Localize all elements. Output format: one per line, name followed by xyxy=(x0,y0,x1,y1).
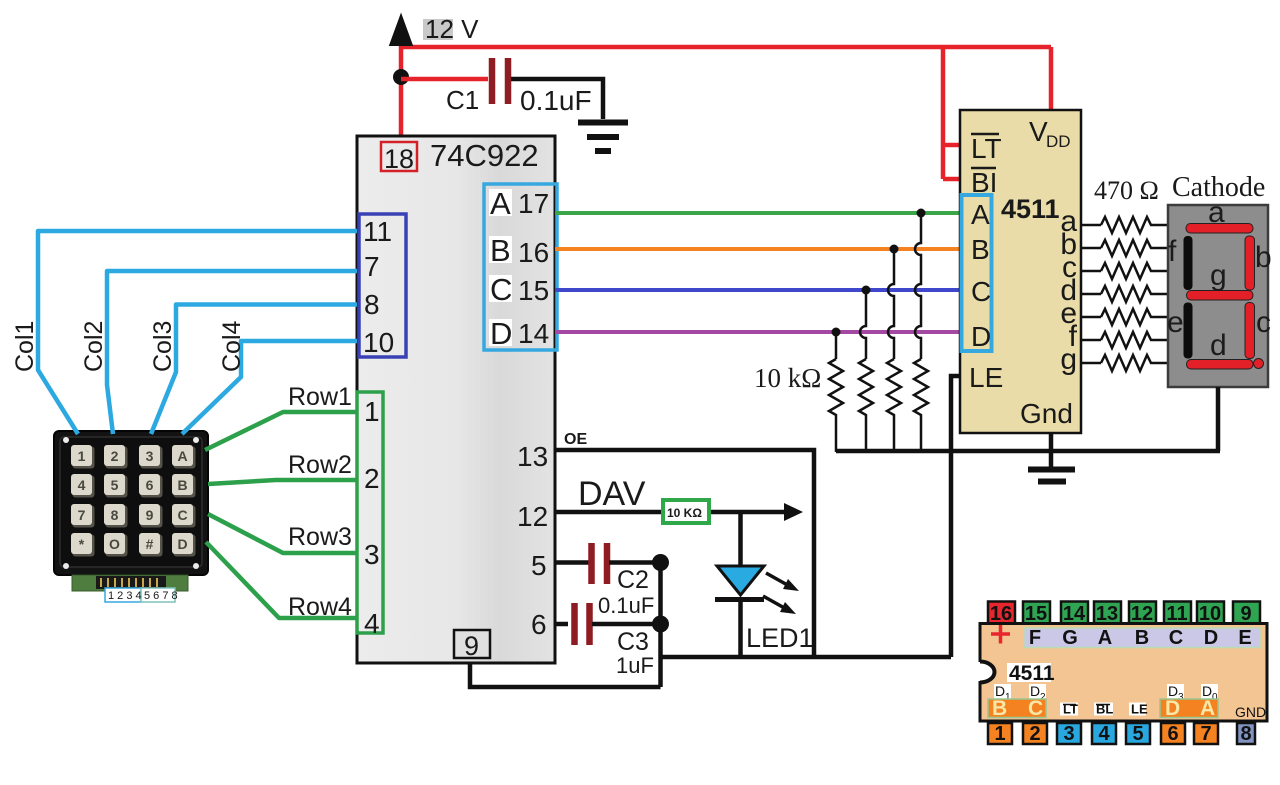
svg-text:Col3: Col3 xyxy=(149,321,177,372)
svg-text:10 kΩ: 10 kΩ xyxy=(754,363,821,393)
svg-text:OE: OE xyxy=(564,431,587,448)
svg-text:D: D xyxy=(490,316,512,351)
svg-text:Row4: Row4 xyxy=(288,593,352,621)
pinout: bottom pin 4 xyxy=(1092,723,1116,744)
svg-text:9: 9 xyxy=(464,631,479,661)
svg-text:9: 9 xyxy=(1240,603,1251,625)
svg-text:10: 10 xyxy=(1199,603,1221,625)
node on C line xyxy=(862,286,871,295)
wire C3 to junction xyxy=(592,622,661,627)
svg-text:C: C xyxy=(177,507,187,523)
svg-text:5: 5 xyxy=(111,477,119,493)
wire DAV pin12 xyxy=(555,510,786,515)
pinout: top pin 12 xyxy=(1129,602,1156,624)
keypad screw holes xyxy=(63,437,199,569)
svg-text:D: D xyxy=(971,321,991,352)
svg-text:D: D xyxy=(1165,697,1180,720)
svg-text:f: f xyxy=(1168,235,1177,268)
keypad pcb tab xyxy=(72,575,188,591)
svg-text:Row1: Row1 xyxy=(288,383,352,411)
svg-text:B: B xyxy=(177,477,187,493)
svg-text:3: 3 xyxy=(364,539,380,570)
wire D data (purple) pin14 to 4511 D xyxy=(555,330,960,334)
wire C1 to ground (black) xyxy=(511,79,603,119)
LED1 cathode bar xyxy=(715,597,764,602)
wire B data (orange) pin16 to 4511 B xyxy=(555,247,960,251)
pinout: D2 label xyxy=(1029,684,1046,699)
IC U2 4511 body xyxy=(960,110,1081,433)
svg-text:4511: 4511 xyxy=(1001,194,1060,224)
node C3 junction xyxy=(652,616,669,633)
svg-text:#: # xyxy=(146,536,154,552)
wire pulldown drop from C xyxy=(860,290,866,359)
column pins group box (blue) xyxy=(359,214,406,357)
svg-text:a: a xyxy=(1208,196,1225,229)
resistor 470 e xyxy=(1101,309,1167,325)
svg-text:*: * xyxy=(79,536,85,552)
pinout: top pin 13 xyxy=(1094,602,1121,624)
pin D 14 xyxy=(489,319,512,346)
svg-text:d: d xyxy=(1210,329,1227,362)
svg-text:Row2: Row2 xyxy=(288,451,352,479)
pin 9 box xyxy=(454,630,490,658)
svg-text:74C922: 74C922 xyxy=(430,138,539,173)
wire c to resistor xyxy=(1081,270,1101,273)
pin A 17 xyxy=(489,189,512,216)
segment b (red) xyxy=(1245,236,1255,290)
segment letter labels xyxy=(1167,196,1272,362)
pin 18 box (red) xyxy=(381,142,417,171)
svg-text:B: B xyxy=(490,233,511,268)
LED1 emission arrows xyxy=(766,573,791,587)
LED1 diode triangle xyxy=(717,566,764,595)
wire Col3 (blue) keypad to pin 8 xyxy=(151,305,357,435)
pinout: BL box xyxy=(1094,703,1113,716)
wire Row2 (green) keypad to pin 2 xyxy=(208,480,357,484)
svg-text:c: c xyxy=(1256,306,1271,339)
wire C2 to junction xyxy=(609,560,661,565)
wire dot to C1 (red) xyxy=(401,77,488,82)
svg-text:e: e xyxy=(1167,306,1184,339)
wire Col1 (blue) keypad to pin 11 xyxy=(38,231,357,434)
svg-text:GND: GND xyxy=(1235,704,1266,720)
pinout: LE box xyxy=(1129,703,1146,716)
pinout: 4511 DIP body with notch xyxy=(980,624,1267,722)
svg-text:C: C xyxy=(1169,627,1183,649)
pinout: top pin numbers xyxy=(990,603,1252,625)
svg-text:Gnd: Gnd xyxy=(1020,398,1073,429)
power supply arrow 12V xyxy=(390,14,413,46)
wire a to resistor xyxy=(1081,224,1101,227)
svg-text:B: B xyxy=(1135,627,1149,649)
pinout: bottom pin 8 xyxy=(1237,723,1255,744)
svg-text:6: 6 xyxy=(531,609,547,640)
svg-text:2: 2 xyxy=(111,448,119,464)
svg-text:14: 14 xyxy=(1063,603,1086,625)
segment e (black) xyxy=(1184,303,1193,359)
svg-text:A: A xyxy=(1098,627,1112,649)
svg-text:0.1uF: 0.1uF xyxy=(598,593,654,618)
svg-text:11: 11 xyxy=(1166,603,1187,625)
svg-text:8: 8 xyxy=(111,507,119,523)
svg-text:A: A xyxy=(177,448,187,464)
pin C 15 xyxy=(489,275,512,302)
pinout: bottom pin 1 xyxy=(988,723,1012,744)
svg-text:B: B xyxy=(992,697,1007,720)
pinout: top pin 11 xyxy=(1164,602,1191,624)
svg-text:11: 11 xyxy=(363,216,392,247)
wire A data (green) pin17 to 4511 A xyxy=(555,211,960,215)
pinout: bottom pin 3 xyxy=(1057,723,1081,744)
svg-text:4: 4 xyxy=(364,608,380,639)
ground rail under resistors xyxy=(836,449,1220,454)
pinout: LT box xyxy=(1060,703,1078,716)
pinout: B C input box xyxy=(988,699,1046,718)
svg-text:12: 12 xyxy=(517,501,548,532)
node on A line xyxy=(917,209,926,218)
wire bottom net to LE xyxy=(661,655,952,660)
ground symbol below 4511 xyxy=(1028,467,1075,473)
data in group box (cyan) xyxy=(962,195,992,351)
wire pulldown drop from B xyxy=(888,249,894,359)
wire Col2 (blue) keypad to pin 7 xyxy=(107,271,357,434)
svg-text:g: g xyxy=(1060,343,1077,376)
pinout: bottom pin 7 xyxy=(1194,723,1218,744)
segment g (red) xyxy=(1187,291,1254,301)
wire pin6 to C3 xyxy=(555,622,568,627)
svg-text:g: g xyxy=(1210,259,1227,292)
pinout: segment letter bar xyxy=(1024,628,1260,648)
resistor 10K box on DAV xyxy=(663,500,709,523)
wire pin5 to C2 xyxy=(555,560,590,565)
svg-text:LT: LT xyxy=(971,133,1002,164)
svg-text:7: 7 xyxy=(364,251,380,282)
svg-text:G: G xyxy=(1062,627,1078,649)
node junction on 12V rail xyxy=(393,69,409,85)
pinout: bottom pin numbers xyxy=(994,723,1251,745)
svg-text:470 Ω: 470 Ω xyxy=(1094,176,1159,205)
svg-text:12 V: 12 V xyxy=(425,14,479,44)
svg-text:4: 4 xyxy=(1098,723,1110,745)
svg-text:9: 9 xyxy=(146,507,154,523)
wire display cathode to ground rail xyxy=(1216,387,1221,451)
pinout: D A input box xyxy=(1160,699,1218,718)
svg-text:C: C xyxy=(490,272,512,307)
pinout: bottom pin 5 xyxy=(1126,723,1150,744)
svg-text:b: b xyxy=(1255,241,1272,274)
segment f (black) xyxy=(1184,236,1193,290)
svg-text:C3: C3 xyxy=(617,628,649,656)
resistor 470 c xyxy=(1101,263,1167,279)
svg-text:15: 15 xyxy=(1025,603,1047,625)
svg-text:Col4: Col4 xyxy=(218,320,246,372)
svg-text:C: C xyxy=(971,276,991,307)
segment a (red) xyxy=(1186,224,1253,234)
svg-text:7: 7 xyxy=(1200,723,1211,745)
pinout: D3 label xyxy=(1167,684,1184,699)
keypad module body xyxy=(54,431,208,575)
svg-text:B: B xyxy=(971,234,990,265)
segment d (red) xyxy=(1187,360,1254,370)
wire to LED1 anode xyxy=(738,512,743,566)
pinout: top pin 16 xyxy=(988,602,1015,624)
data out group box (cyan) xyxy=(484,184,557,350)
pinout: top pin 15 xyxy=(1023,602,1050,624)
svg-text:3: 3 xyxy=(146,448,154,464)
svg-text:6: 6 xyxy=(146,477,154,493)
svg-text:1: 1 xyxy=(78,448,86,464)
resistor 470 a xyxy=(1101,217,1167,233)
svg-text:DAV: DAV xyxy=(578,475,646,513)
capacitor C3 xyxy=(575,603,590,645)
wire +12V rail (red) xyxy=(401,45,1051,179)
capacitor C2 xyxy=(592,543,608,584)
pinout: bottom pin 2 xyxy=(1023,723,1047,744)
svg-text:5: 5 xyxy=(1132,723,1143,745)
svg-text:LE: LE xyxy=(969,362,1003,393)
wire pin9 to junction xyxy=(470,663,661,687)
pins a-g labels xyxy=(1060,205,1077,376)
resistor 10k on B xyxy=(887,359,901,452)
pinout: D1 label xyxy=(994,684,1011,699)
resistor 470 b xyxy=(1101,240,1167,256)
svg-text:1 2 3 4: 1 2 3 4 xyxy=(108,590,142,602)
svg-text:12: 12 xyxy=(1131,603,1153,625)
resistor 470 d xyxy=(1101,286,1167,302)
resistor 470 g xyxy=(1101,355,1167,371)
pinout: bottom pin 6 xyxy=(1161,723,1185,744)
pinout: top pin 14 xyxy=(1061,602,1088,624)
svg-text:8: 8 xyxy=(364,289,380,320)
svg-text:1: 1 xyxy=(364,396,380,427)
svg-text:16: 16 xyxy=(518,237,549,268)
pin B 16 xyxy=(489,236,512,263)
svg-text:C1: C1 xyxy=(446,85,479,115)
svg-text:15: 15 xyxy=(518,275,549,306)
row pins group box (green) xyxy=(357,392,383,633)
svg-text:5: 5 xyxy=(531,550,547,581)
svg-text:0.1uF: 0.1uF xyxy=(520,85,592,116)
wire Row1 (green) keypad to pin 1 xyxy=(205,412,357,450)
wire pulldown drop from A xyxy=(915,213,921,359)
wire g to resistor xyxy=(1081,362,1101,365)
wire d to resistor xyxy=(1081,293,1101,296)
pinout: D0 label xyxy=(1201,684,1218,699)
svg-text:D: D xyxy=(177,536,187,552)
svg-text:8: 8 xyxy=(1240,723,1251,745)
svg-text:F: F xyxy=(1029,627,1041,649)
svg-text:LE: LE xyxy=(1131,702,1148,717)
pinout: top pin 9 xyxy=(1233,602,1260,624)
svg-text:3: 3 xyxy=(1063,723,1074,745)
IC U1 74C922 body xyxy=(357,136,555,663)
node on D line xyxy=(832,328,841,337)
label 12 V xyxy=(423,19,453,40)
pinout: plus mark xyxy=(991,625,1010,644)
pinout: top pin 10 xyxy=(1197,602,1224,624)
wire 4511 Gnd to ground xyxy=(1049,433,1054,467)
svg-text:Row3: Row3 xyxy=(288,523,352,551)
wire Col4 (blue) keypad to pin 10 xyxy=(182,341,357,434)
wire f to resistor xyxy=(1081,339,1101,342)
svg-text:13: 13 xyxy=(1096,603,1118,625)
svg-text:LED1: LED1 xyxy=(746,623,814,653)
svg-text:17: 17 xyxy=(518,188,549,219)
segment c (red) xyxy=(1245,303,1255,359)
svg-text:2: 2 xyxy=(364,463,380,494)
wire e to resistor xyxy=(1081,316,1101,319)
svg-text:A: A xyxy=(971,199,990,230)
wire OE loop pin13 xyxy=(555,450,814,657)
capacitor C1 xyxy=(492,58,508,104)
resistor 10k on D xyxy=(829,359,843,452)
svg-text:5 6 7 8: 5 6 7 8 xyxy=(144,590,178,602)
svg-text:16: 16 xyxy=(990,603,1012,625)
svg-text:10: 10 xyxy=(363,327,394,358)
svg-text:2: 2 xyxy=(1029,723,1040,745)
svg-text:1: 1 xyxy=(994,723,1005,745)
svg-text:1uF: 1uF xyxy=(616,653,654,678)
svg-text:C: C xyxy=(1028,697,1043,720)
svg-text:4: 4 xyxy=(78,477,86,493)
node on B line xyxy=(890,245,899,254)
resistor 10k on A xyxy=(914,359,928,452)
svg-text:Col1: Col1 xyxy=(11,321,39,372)
svg-text:10 KΩ: 10 KΩ xyxy=(667,506,702,520)
wire b to resistor xyxy=(1081,247,1101,250)
wire LE drop xyxy=(951,376,960,657)
node C2 junction xyxy=(652,554,669,571)
wire junction vertical xyxy=(658,563,663,688)
DAV arrowhead xyxy=(784,503,803,521)
wire Row3 (green) keypad to pin 3 xyxy=(208,514,357,553)
decimal point (red) xyxy=(1254,359,1264,369)
svg-text:6: 6 xyxy=(1167,723,1178,745)
svg-text:14: 14 xyxy=(518,318,549,349)
wire LED1 cathode down xyxy=(738,600,743,657)
svg-text:D: D xyxy=(1204,627,1218,649)
wire pulldown drop from D xyxy=(835,332,838,359)
svg-text:A: A xyxy=(1200,697,1215,720)
svg-text:18: 18 xyxy=(384,144,414,174)
keypad keys xyxy=(71,445,196,557)
keypad pin labels 1-8 xyxy=(105,588,178,602)
svg-text:E: E xyxy=(1238,627,1251,649)
keypad connector xyxy=(96,576,166,589)
wire Row4 (green) keypad to pin 4 xyxy=(206,542,357,618)
ground symbol near C1 xyxy=(578,120,628,126)
resistor 470 f xyxy=(1101,332,1167,348)
7-segment display body xyxy=(1168,205,1268,387)
svg-text:C2: C2 xyxy=(617,566,649,594)
svg-text:7: 7 xyxy=(78,507,86,523)
svg-text:13: 13 xyxy=(517,441,548,472)
wire C data (indigo) pin15 to 4511 C xyxy=(555,288,960,292)
svg-text:A: A xyxy=(490,186,511,221)
pinout: label 4511 xyxy=(1007,663,1051,682)
svg-text:Col2: Col2 xyxy=(80,321,108,372)
resistor 10k on C xyxy=(859,359,873,452)
svg-text:DD: DD xyxy=(1046,132,1071,151)
svg-text:O: O xyxy=(109,536,120,552)
svg-text:4511: 4511 xyxy=(1009,662,1055,685)
